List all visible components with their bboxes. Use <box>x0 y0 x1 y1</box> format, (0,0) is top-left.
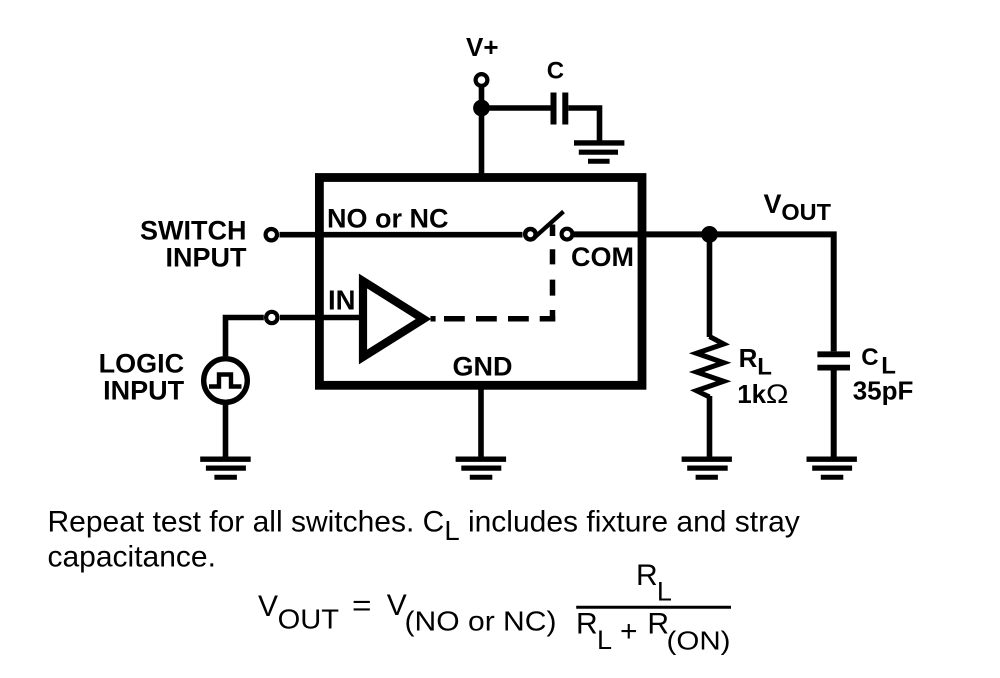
svg-text:SWITCH: SWITCH <box>140 215 246 245</box>
wire junction to resistor <box>707 234 713 337</box>
wire switch input to switch <box>280 232 523 238</box>
terminal IN <box>266 312 277 323</box>
ground (C) <box>574 140 624 145</box>
svg-text:OUT: OUT <box>278 604 340 635</box>
ground (GND) <box>456 457 507 462</box>
dashed wire horizontal <box>431 316 556 322</box>
dashed wire vertical <box>550 225 556 322</box>
svg-text:INPUT: INPUT <box>103 376 185 406</box>
svg-text:INPUT: INPUT <box>166 242 248 272</box>
wire logic branch <box>226 318 264 357</box>
switch contact right <box>562 229 573 240</box>
svg-text:NO or NC: NO or NC <box>327 204 449 234</box>
svg-text:IN: IN <box>328 285 356 316</box>
wire IN terminal to buffer <box>280 315 360 321</box>
terminal V+ <box>476 74 488 86</box>
svg-text:LOGIC: LOGIC <box>99 349 185 379</box>
svg-text:V: V <box>258 590 278 623</box>
svg-text:(ON): (ON) <box>667 626 731 656</box>
ground (RL) <box>682 457 732 462</box>
svg-text:=: = <box>352 590 372 623</box>
fraction bar <box>576 606 731 609</box>
wire resistor to ground <box>707 396 713 457</box>
wire pulse to ground <box>223 405 229 457</box>
pulse waveform <box>209 375 242 387</box>
junction output <box>701 226 718 243</box>
svg-text:R: R <box>576 608 598 641</box>
pulse source <box>204 359 248 403</box>
wire CL to ground <box>831 368 837 457</box>
svg-text:(NO or NC): (NO or NC) <box>405 606 557 637</box>
svg-text:OUT: OUT <box>781 199 831 225</box>
wire V+ to box <box>479 88 485 178</box>
svg-text:GND: GND <box>453 352 513 382</box>
wire GND to ground <box>478 386 484 457</box>
buffer U1 <box>363 281 424 357</box>
svg-text:C: C <box>861 344 878 371</box>
resistor RL <box>697 337 724 398</box>
svg-text:+: + <box>620 615 638 648</box>
svg-text:V: V <box>764 189 782 219</box>
switch lever <box>535 212 564 238</box>
svg-text:R: R <box>636 559 658 592</box>
capacitor C <box>551 93 557 125</box>
wire C to ground <box>568 108 599 141</box>
svg-text:35pF: 35pF <box>853 376 914 406</box>
svg-text:COM: COM <box>571 242 634 272</box>
wire COM to output corner <box>574 234 834 351</box>
DUT box <box>319 178 642 386</box>
junction V+ <box>473 100 490 117</box>
svg-text:capacitance.: capacitance. <box>48 541 216 574</box>
svg-text:Ω: Ω <box>766 379 789 409</box>
svg-text:L: L <box>597 625 612 655</box>
wire junction to C <box>482 105 552 111</box>
svg-text:R: R <box>739 343 758 373</box>
ground (CL) <box>807 457 857 462</box>
svg-text:1k: 1k <box>737 379 766 409</box>
svg-text:V+: V+ <box>466 32 499 62</box>
svg-text:L: L <box>657 576 672 606</box>
capacitor CL <box>817 351 850 357</box>
svg-text:L: L <box>757 353 772 380</box>
switch contact left <box>525 229 536 240</box>
terminal SWITCH INPUT <box>266 229 277 240</box>
ground (logic) <box>200 457 251 462</box>
svg-text:C: C <box>547 58 564 85</box>
